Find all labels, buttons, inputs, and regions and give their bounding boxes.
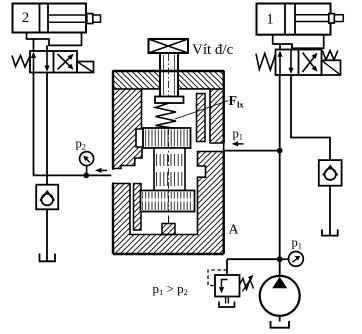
svg-text:p2: p2 [76, 137, 87, 152]
valve V1 crossed arrows [303, 55, 316, 72]
relief valve RV [215, 275, 240, 297]
relief valve pilot dashed [208, 270, 227, 286]
spring F_lx [156, 103, 177, 128]
wire main p1 line [279, 75, 281, 276]
node pump junction [277, 256, 283, 262]
cylinder 2 rod [48, 15, 101, 22]
valve V2 body [30, 51, 77, 73]
pump P [260, 276, 300, 316]
svg-text:Flx: Flx [229, 94, 245, 110]
tank T4 pump suction [271, 321, 290, 328]
valve V1 body [276, 50, 322, 76]
cylinder 1 rod collar [329, 14, 335, 23]
tank T1 [322, 229, 338, 235]
floor block [162, 224, 175, 235]
node p2 junction [83, 173, 89, 179]
wire cylinder2 port B to valve [46, 45, 48, 51]
tank T3 [219, 302, 235, 308]
spring seat washer [155, 97, 184, 104]
svg-text:p1 > p2: p1 > p2 [153, 281, 188, 297]
flow arrow at p2 [99, 169, 107, 171]
sleeve island right [197, 94, 206, 142]
wire cylinder2 port A to valve [33, 39, 35, 51]
internal cavity [113, 89, 224, 235]
valve body hatched mass [113, 89, 224, 254]
relief valve spring [240, 279, 254, 290]
wire p1 to valve body [224, 150, 280, 152]
check valve CV2 [36, 185, 58, 210]
svg-text:Vít đ/c: Vít đ/c [192, 42, 234, 58]
p2 port open mouth [111, 170, 114, 182]
wire relief branch [227, 258, 280, 260]
cylinder 2 piston [40, 4, 49, 33]
top cover band right [178, 71, 224, 89]
top cover band left [113, 71, 160, 89]
valve V1 arrow up [279, 53, 281, 75]
tank T2 [40, 254, 56, 262]
flow arrow p1 inlet [235, 143, 244, 145]
valve V2 solenoid [77, 62, 94, 73]
svg-text:p1: p1 [292, 236, 303, 251]
cylinder 1 rod [295, 15, 343, 22]
sleeve column left lower [134, 184, 142, 231]
valve V2 crossed arrows [58, 56, 72, 70]
centerline [168, 54, 170, 96]
wire valve2 A-port to p2 line [34, 73, 114, 176]
wire check valve 1 to tank [329, 186, 331, 235]
cylinder 2 port plate [27, 33, 82, 46]
valve V2 spring [12, 56, 30, 68]
valve V1 spring right [322, 51, 337, 60]
wire check valve to tank [46, 209, 48, 260]
cylinder 1 body [257, 4, 331, 35]
wire valve2 B-port down [46, 73, 48, 185]
svg-text:2: 2 [22, 10, 30, 26]
leader line F_lx [175, 101, 229, 120]
node p1 valve junction [277, 148, 283, 154]
svg-text:p1: p1 [233, 127, 244, 142]
cylinder 1 port plate [273, 35, 324, 49]
valve V2 arrow down [46, 51, 48, 69]
adjusting screw stem [160, 53, 178, 97]
body border [113, 71, 224, 254]
valve V2 arrow up [33, 55, 35, 73]
cylinder 2 body [13, 4, 87, 33]
valve V1 spring left [256, 54, 276, 71]
svg-text:1: 1 [266, 11, 274, 27]
cylinder 2 rod collar [87, 14, 93, 24]
adjusting screw head [149, 39, 189, 53]
gauge p2 [80, 152, 94, 166]
spool upper land [143, 128, 191, 148]
gauge p1 [280, 258, 289, 260]
cylinder 1 piston [285, 4, 295, 35]
valve V1 solenoid [322, 60, 341, 75]
check valve CV1 [319, 160, 342, 186]
relief valve drain to tank [226, 297, 229, 304]
spool lower land [141, 191, 195, 212]
wire valve1 B branch [291, 75, 330, 160]
spool neck [154, 148, 185, 191]
valve V1 arrow down [290, 50, 292, 72]
svg-text:A: A [229, 223, 240, 238]
wire cylinder1 ports to valve [280, 44, 292, 50]
relief valve adjust arrow [243, 278, 252, 292]
